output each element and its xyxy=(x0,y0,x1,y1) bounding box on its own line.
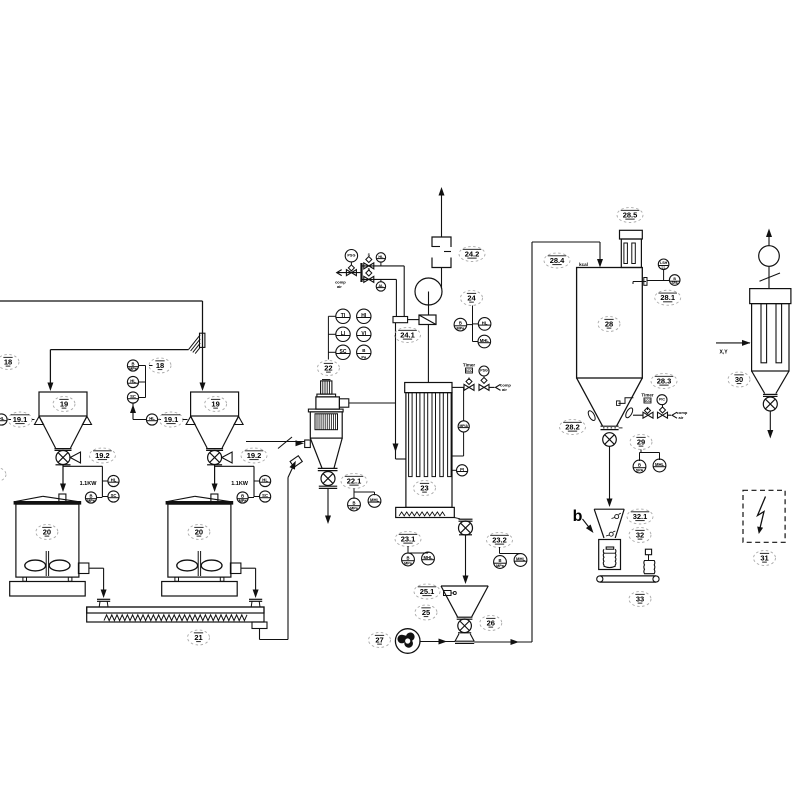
svg-text:28.5: 28.5 xyxy=(623,210,638,219)
svg-text:PSG: PSG xyxy=(347,253,355,257)
svg-text:19.2: 19.2 xyxy=(247,451,262,460)
svg-text:18: 18 xyxy=(156,361,164,370)
svg-text:B: B xyxy=(459,320,462,325)
svg-text:kcal: kcal xyxy=(579,262,588,267)
svg-text:19.1: 19.1 xyxy=(13,415,28,424)
svg-text:22: 22 xyxy=(324,363,332,372)
svg-text:TI: TI xyxy=(341,313,346,319)
svg-text:24: 24 xyxy=(467,293,476,302)
svg-text:air: air xyxy=(337,284,342,289)
svg-text:MHL: MHL xyxy=(655,462,665,467)
svg-text:MPa: MPa xyxy=(239,499,248,503)
svg-text:28: 28 xyxy=(605,319,613,328)
svg-text:32: 32 xyxy=(636,530,644,539)
svg-text:33: 33 xyxy=(636,594,644,603)
svg-text:28.4: 28.4 xyxy=(550,256,565,265)
svg-text:19: 19 xyxy=(60,399,68,408)
svg-text:B: B xyxy=(406,555,409,560)
svg-text:HL: HL xyxy=(482,321,488,326)
svg-text:MPa: MPa xyxy=(496,564,505,568)
svg-text:MPa: MPa xyxy=(350,507,359,511)
svg-text:30: 30 xyxy=(735,375,743,384)
svg-text:HL: HL xyxy=(378,255,384,259)
svg-text:MHL: MHL xyxy=(370,498,380,503)
svg-text:20: 20 xyxy=(195,527,203,536)
svg-text:HL: HL xyxy=(149,416,155,421)
svg-text:SC: SC xyxy=(111,493,117,498)
svg-text:23.1: 23.1 xyxy=(401,534,416,543)
svg-text:MPa: MPa xyxy=(87,499,96,503)
svg-text:25.1: 25.1 xyxy=(420,587,435,596)
svg-text:MPa: MPa xyxy=(129,367,138,371)
svg-text:24.1: 24.1 xyxy=(400,330,415,339)
svg-text:MPIA: MPIA xyxy=(459,424,468,428)
svg-text:SPA: SPA xyxy=(636,469,644,473)
svg-text:31: 31 xyxy=(760,553,768,562)
svg-text:HL: HL xyxy=(262,478,268,483)
svg-text:HL: HL xyxy=(111,478,117,483)
svg-text:27: 27 xyxy=(375,635,383,644)
svg-text:19: 19 xyxy=(211,399,219,408)
svg-text:B: B xyxy=(131,361,134,366)
svg-text:HL: HL xyxy=(130,379,136,384)
svg-text:HL: HL xyxy=(0,416,5,421)
svg-text:PSG: PSG xyxy=(480,369,488,373)
svg-text:18: 18 xyxy=(4,357,12,366)
svg-text:29: 29 xyxy=(637,437,645,446)
svg-text:MHL: MHL xyxy=(423,555,433,560)
svg-text:Pa: Pa xyxy=(361,354,367,359)
svg-text:B: B xyxy=(638,462,641,467)
svg-text:air: air xyxy=(502,387,507,392)
svg-text:1.1KW: 1.1KW xyxy=(231,481,249,487)
svg-text:23.2: 23.2 xyxy=(492,535,507,544)
svg-text:B: B xyxy=(362,348,365,353)
svg-text:B: B xyxy=(498,558,501,563)
svg-text:MPa: MPa xyxy=(404,562,413,566)
svg-text:SC: SC xyxy=(262,493,268,498)
svg-text:19.2: 19.2 xyxy=(95,451,110,460)
svg-text:PIC: PIC xyxy=(659,397,665,401)
svg-text:21: 21 xyxy=(194,633,202,642)
svg-text:32.1: 32.1 xyxy=(633,512,648,521)
svg-text:PI: PI xyxy=(460,467,464,472)
svg-text:22.1: 22.1 xyxy=(347,476,362,485)
svg-text:19.1: 19.1 xyxy=(164,415,179,424)
svg-text:X,Y: X,Y xyxy=(719,350,728,356)
svg-text:Timer: Timer xyxy=(641,393,653,398)
svg-text:28.2: 28.2 xyxy=(565,422,580,431)
svg-text:24.2: 24.2 xyxy=(465,249,480,258)
svg-text:28.3: 28.3 xyxy=(657,376,672,385)
svg-text:B: B xyxy=(352,500,355,505)
svg-text:23: 23 xyxy=(420,483,428,492)
svg-text:HI: HI xyxy=(361,313,367,319)
svg-text:LI: LI xyxy=(341,331,346,337)
svg-text:26: 26 xyxy=(487,618,495,627)
svg-text:SCO: SCO xyxy=(465,369,473,373)
svg-text:B: B xyxy=(241,493,244,498)
svg-text:SC: SC xyxy=(340,349,347,355)
svg-text:b: b xyxy=(573,508,583,525)
svg-text:MHL: MHL xyxy=(516,557,526,562)
svg-text:25: 25 xyxy=(422,608,430,617)
svg-text:LL: LL xyxy=(662,265,666,269)
svg-text:SCO: SCO xyxy=(644,399,652,403)
svg-text:air: air xyxy=(679,415,684,420)
svg-text:B: B xyxy=(89,493,92,498)
svg-text:AL: AL xyxy=(378,284,384,288)
svg-text:Timer: Timer xyxy=(463,363,475,368)
svg-text:VI: VI xyxy=(361,331,366,337)
svg-text:MPa: MPa xyxy=(456,327,465,331)
svg-text:SC: SC xyxy=(130,394,136,399)
svg-text:SPA: SPA xyxy=(672,281,679,285)
svg-text:MHL: MHL xyxy=(480,338,490,343)
svg-text:28.1: 28.1 xyxy=(660,293,675,302)
svg-text:20: 20 xyxy=(43,527,51,536)
svg-text:1.1KW: 1.1KW xyxy=(80,481,98,487)
